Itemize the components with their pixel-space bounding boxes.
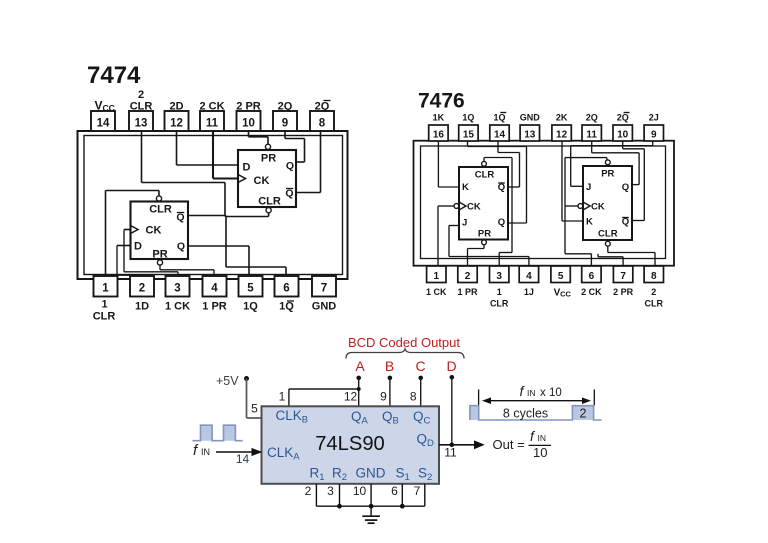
wire pin14 to FFA Qbar	[497, 141, 499, 153]
svg-text:IN: IN	[538, 433, 547, 443]
wire pin11 to FFB Q	[591, 141, 593, 153]
svg-text:2: 2	[651, 287, 656, 297]
svg-text:10: 10	[353, 484, 367, 498]
flip-flop FFA of 7476 box	[459, 167, 508, 240]
wire pin15 to FFA Q	[467, 141, 469, 147]
svg-text:J: J	[586, 182, 591, 193]
svg-text:2: 2	[580, 407, 587, 421]
svg-text:1Q: 1Q	[493, 113, 505, 123]
svg-text:4: 4	[526, 271, 532, 282]
svg-text:1 PR: 1 PR	[202, 301, 227, 313]
svg-text:PR: PR	[478, 229, 491, 240]
wire FFB CK to pin6	[564, 158, 566, 254]
svg-text:CLR: CLR	[130, 101, 153, 113]
svg-text:1D: 1D	[135, 301, 149, 313]
svg-text:2K: 2K	[556, 113, 568, 123]
svg-text:GND: GND	[356, 466, 386, 481]
7476 pin 10 box (top)	[613, 125, 632, 141]
7476 pin 6 box (bottom)	[582, 266, 601, 283]
wire node D down to output line	[451, 377, 453, 445]
wire QA up to node A	[358, 378, 360, 406]
svg-text:2: 2	[138, 89, 144, 101]
svg-text:7476: 7476	[418, 90, 465, 113]
7476 pin 1 box (bottom)	[427, 266, 446, 283]
wire to pin7 (2 PR)	[597, 254, 599, 257]
svg-text:10: 10	[242, 118, 255, 130]
wire pin12 to FFB K	[561, 141, 563, 221]
bottom wire S2	[424, 484, 426, 506]
wire pin9 to FF2 Q	[284, 131, 286, 139]
svg-text:4: 4	[211, 283, 218, 295]
svg-text:12: 12	[170, 118, 183, 130]
7474 pin 14 box (top)	[91, 111, 115, 131]
wire FF1 Qbar to pin6	[188, 215, 226, 217]
svg-text:1: 1	[101, 299, 107, 311]
svg-text:K: K	[462, 182, 469, 193]
7474 pin 13 box (top)	[129, 111, 153, 131]
output arrowhead	[474, 440, 485, 449]
junction dot node D on output	[450, 443, 455, 448]
svg-text:Q: Q	[622, 182, 629, 193]
FFA clock bubble and triangle	[454, 204, 459, 209]
bottom wire R2	[339, 484, 341, 506]
svg-text:8: 8	[410, 390, 417, 404]
svg-text:3: 3	[327, 484, 334, 498]
flip-flop FFB of 7476 box	[583, 166, 632, 240]
svg-text:3: 3	[496, 271, 502, 282]
svg-text:1: 1	[497, 287, 502, 297]
wire FFB PR line	[565, 157, 607, 159]
7476 pin 2 box (bottom)	[458, 266, 477, 283]
7474 pin 9 box (top)	[273, 111, 297, 131]
svg-text:CLR: CLR	[490, 299, 509, 309]
junction dot GND	[369, 504, 374, 509]
svg-text:7: 7	[620, 271, 626, 282]
measurement double arrow	[484, 400, 589, 402]
svg-text:14: 14	[494, 130, 506, 141]
svg-text:1 CK: 1 CK	[426, 287, 447, 297]
svg-text:8 cycles: 8 cycles	[503, 407, 548, 421]
wire FFA CLR to pin3	[483, 158, 485, 162]
svg-text:GND: GND	[520, 113, 541, 123]
FFB CLR bubble (bottom)	[605, 241, 610, 246]
svg-text:IN: IN	[201, 447, 210, 457]
IC body 7476 outer border	[414, 141, 675, 266]
svg-text:CK: CK	[591, 202, 605, 213]
svg-text:8: 8	[319, 118, 326, 130]
svg-text:3: 3	[174, 283, 180, 295]
FF1 CLR bubble (top)	[156, 196, 161, 201]
svg-text:14: 14	[97, 118, 110, 130]
IC body 7474 inner border	[84, 136, 343, 275]
wire FF1 Q to pin5	[188, 245, 249, 247]
node dot D	[450, 375, 455, 380]
7474 pin 2 box (bottom)	[130, 276, 154, 297]
svg-text:CK: CK	[146, 225, 162, 237]
svg-text:D: D	[243, 162, 251, 174]
svg-text:1: 1	[279, 390, 286, 404]
7476 pin 16 box (top)	[429, 125, 448, 141]
flip-flop FF1 of 7474 box	[131, 202, 189, 260]
svg-text:f: f	[530, 428, 536, 444]
wire pin10 to FF2 PR	[248, 131, 250, 137]
GND stem wire	[370, 484, 372, 516]
IC body 7476 inner border	[421, 146, 666, 259]
svg-text:2: 2	[139, 283, 145, 295]
wire FFA J to pin4	[449, 225, 459, 227]
7474 pin 11 box (top)	[200, 111, 224, 131]
wire pin13 to FF2 CLR	[141, 131, 143, 183]
FF2 PR bubble (top)	[265, 144, 270, 149]
7474 pin 4 box (bottom)	[203, 276, 227, 297]
svg-text:x 10: x 10	[540, 387, 562, 399]
svg-text:CK: CK	[254, 175, 270, 187]
svg-text:6: 6	[283, 283, 289, 295]
svg-text:Out =: Out =	[493, 437, 525, 452]
svg-text:16: 16	[433, 130, 445, 141]
FFA CLR bubble (top)	[482, 161, 487, 166]
svg-text:11: 11	[206, 118, 219, 130]
junction dot QA/CLKB	[357, 387, 361, 391]
bottom wire S1	[401, 484, 403, 506]
svg-text:6: 6	[589, 271, 595, 282]
svg-text:C: C	[415, 358, 425, 374]
7476 pin 3 box (bottom)	[490, 266, 509, 283]
svg-text:CC: CC	[103, 103, 115, 113]
svg-text:A: A	[355, 358, 365, 374]
wire pin12 to FF2 D	[176, 131, 178, 165]
svg-text:2 CK: 2 CK	[581, 287, 602, 297]
right waveform tick left	[478, 390, 480, 406]
svg-text:2Q: 2Q	[586, 113, 598, 123]
svg-text:2 CK: 2 CK	[199, 101, 224, 113]
FFA PR bubble (bottom)	[482, 240, 487, 245]
red curly brace	[346, 349, 464, 359]
svg-text:2Q: 2Q	[278, 101, 293, 113]
node dot C	[418, 376, 423, 381]
svg-text:2 PR: 2 PR	[613, 287, 634, 297]
wire pin2 to FF1 D	[117, 245, 131, 247]
svg-text:2: 2	[465, 271, 471, 282]
wire pin8 to FF2 Qbar	[320, 131, 322, 193]
svg-text:1 CK: 1 CK	[165, 301, 190, 313]
flip-flop FF2 of 7474 box	[238, 150, 296, 207]
svg-text:14: 14	[236, 452, 250, 466]
wire pin3 to FF1 CK	[124, 229, 131, 231]
svg-text:9: 9	[380, 390, 387, 404]
svg-text:7: 7	[414, 484, 421, 498]
ground symbol	[362, 515, 380, 517]
svg-text:1J: 1J	[524, 287, 534, 297]
svg-text:IN: IN	[527, 388, 536, 398]
svg-text:1Q: 1Q	[243, 301, 258, 313]
svg-text:PR: PR	[261, 153, 276, 165]
svg-text:BCD Coded Output: BCD Coded Output	[348, 335, 460, 350]
wire pin9 to FFB J	[652, 141, 654, 146]
input pulse waveform	[201, 425, 236, 441]
svg-text:+5V: +5V	[216, 374, 239, 388]
svg-text:PR: PR	[152, 249, 167, 261]
7476 pin 12 box (top)	[552, 125, 571, 141]
wire +5V down to pin5	[246, 379, 248, 419]
wire QB up to node B	[389, 378, 391, 406]
svg-text:D: D	[134, 241, 142, 253]
junction dot R2	[337, 504, 342, 509]
wire pin11 to FF2 CK	[212, 131, 214, 179]
svg-text:12: 12	[556, 130, 568, 141]
bottom wire R1	[315, 484, 317, 506]
+5V node dot	[244, 376, 249, 381]
svg-text:CLR: CLR	[475, 170, 495, 181]
wire QC up to node C	[420, 378, 422, 406]
svg-text:11: 11	[444, 446, 457, 460]
FF2 CLR bubble (bottom)	[266, 208, 271, 213]
svg-text:2Q: 2Q	[617, 113, 629, 123]
FF1 PR bubble (bottom)	[157, 260, 162, 265]
svg-text:13: 13	[135, 118, 148, 130]
svg-text:CC: CC	[560, 290, 571, 299]
svg-text:9: 9	[651, 130, 657, 141]
svg-text:PR: PR	[601, 169, 614, 180]
svg-text:Q: Q	[286, 160, 294, 172]
svg-text:Q: Q	[176, 212, 184, 224]
svg-text:1Q: 1Q	[279, 301, 294, 313]
svg-text:15: 15	[463, 130, 475, 141]
svg-text:74LS90: 74LS90	[315, 433, 385, 455]
svg-text:2: 2	[305, 484, 312, 498]
wire pin1 to FF1 CLR	[105, 191, 107, 277]
output waveform outline	[470, 406, 602, 420]
svg-text:B: B	[385, 358, 394, 374]
7476 pin 4 box (bottom)	[519, 266, 538, 283]
7474 pin 5 box (bottom)	[239, 276, 263, 297]
wire pin16 to FFA K	[437, 141, 439, 187]
svg-text:2D: 2D	[169, 101, 183, 113]
svg-text:1: 1	[102, 283, 109, 295]
svg-text:Q: Q	[498, 217, 505, 228]
svg-text:13: 13	[524, 130, 536, 141]
7476 pin 7 box (bottom)	[613, 266, 632, 283]
svg-text:Q: Q	[177, 241, 185, 253]
wire QA to CLKB feedback	[288, 389, 290, 406]
wire pin10 to FFB Qbar	[622, 141, 624, 149]
IC body 7474 outer border	[78, 131, 348, 279]
wire FFB CLR to pin8	[607, 246, 609, 252]
7476 pin 15 box (top)	[459, 125, 478, 141]
svg-text:9: 9	[282, 118, 288, 130]
svg-text:2 PR: 2 PR	[236, 101, 261, 113]
7474 pin 7 box (bottom)	[312, 276, 336, 297]
svg-text:10: 10	[533, 445, 547, 460]
7476 pin 5 box (bottom)	[551, 266, 570, 283]
svg-text:1: 1	[434, 271, 440, 282]
svg-text:K: K	[586, 217, 593, 228]
svg-text:CLR: CLR	[93, 311, 116, 323]
svg-text:CLR: CLR	[598, 229, 618, 240]
junction dot S1	[400, 504, 405, 509]
arrow fIN to CLKA pin14	[216, 451, 252, 453]
svg-text:CLR: CLR	[258, 196, 281, 208]
svg-text:2Q: 2Q	[315, 101, 330, 113]
7476 pin 11 box (top)	[582, 125, 601, 141]
output wire QD	[439, 444, 475, 446]
right waveform tick right	[593, 390, 595, 406]
svg-text:GND: GND	[312, 301, 337, 313]
FFB PR bubble (top)	[605, 160, 610, 165]
svg-text:CLR: CLR	[645, 299, 664, 309]
7474 pin 6 box (bottom)	[275, 276, 299, 297]
FFB clock bubble and triangle	[578, 204, 583, 209]
wire FFA CK to pin1	[438, 205, 454, 207]
svg-text:2J: 2J	[649, 113, 659, 123]
FF1 clock triangle	[131, 226, 139, 234]
7474 pin 12 box (top)	[165, 111, 189, 131]
svg-text:7: 7	[321, 283, 327, 295]
svg-text:V: V	[95, 99, 103, 113]
svg-text:5: 5	[247, 283, 254, 295]
svg-text:1K: 1K	[433, 113, 445, 123]
7476 pin 9 box (top)	[644, 125, 663, 141]
svg-text:D: D	[446, 358, 456, 374]
svg-text:J: J	[462, 218, 467, 229]
svg-text:f: f	[193, 442, 199, 459]
svg-text:10: 10	[617, 130, 629, 141]
svg-text:8: 8	[651, 271, 657, 282]
svg-text:7474: 7474	[87, 62, 141, 89]
7474 pin 10 box (top)	[237, 111, 261, 131]
wire pin4 to FF1 PR	[159, 265, 161, 270]
svg-text:11: 11	[586, 130, 597, 141]
svg-text:12: 12	[344, 390, 358, 404]
7474 pin 8 box (top)	[310, 111, 334, 131]
svg-text:f: f	[520, 383, 526, 399]
7474 pin 1 box (bottom)	[94, 276, 118, 297]
IC 74LS90 body	[262, 406, 440, 484]
output waveform high segments fill	[470, 406, 594, 420]
node dot B	[388, 376, 393, 381]
svg-text:1Q: 1Q	[462, 113, 474, 123]
svg-text:5: 5	[251, 402, 258, 416]
svg-text:1 PR: 1 PR	[457, 287, 478, 297]
bottom bus wire	[316, 505, 424, 507]
node dot A	[356, 376, 361, 381]
svg-text:CK: CK	[467, 202, 481, 213]
svg-text:CLR: CLR	[149, 204, 172, 216]
7476 pin 8 box (bottom)	[644, 266, 663, 283]
FF2 clock triangle	[238, 175, 246, 183]
wire FFA PR to pin2	[483, 245, 485, 249]
7476 pin 14 box (top)	[490, 125, 509, 141]
svg-text:6: 6	[391, 484, 398, 498]
svg-text:5: 5	[558, 271, 564, 282]
svg-text:Q: Q	[285, 188, 293, 200]
7474 pin 3 box (bottom)	[166, 276, 190, 297]
7476 pin 13 box (top)	[520, 125, 539, 141]
